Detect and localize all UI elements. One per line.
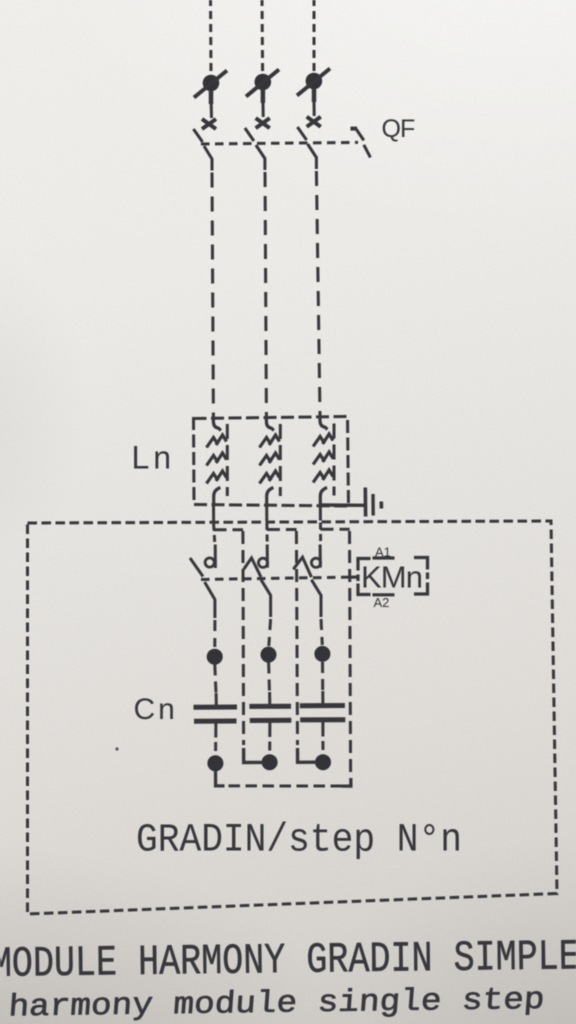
title line 2 harmony module single step (7, 983, 546, 1024)
junction dot 1 top (207, 649, 223, 665)
earth symbol (365, 488, 381, 517)
capacitor C3 bottom lead (321, 722, 324, 750)
label A1 (375, 545, 391, 560)
ink speck (115, 747, 118, 750)
inductor L2 core (279, 424, 282, 496)
inductor L1 coil (207, 416, 227, 505)
label QF (382, 115, 415, 143)
branch tap 1 (214, 530, 244, 745)
wire pole2 to junction (269, 619, 271, 646)
terminal X pole 2 (256, 118, 270, 128)
title line 1 MODULE HARMONY GRADIN SIMPLE (0, 932, 576, 989)
contactor KMn linkage (201, 577, 357, 580)
label Ln (132, 440, 176, 476)
junction dot 2 bottom (262, 754, 278, 770)
capacitor C1 bottom lead (214, 723, 217, 751)
contactor KMn pole 1 contact (190, 545, 215, 619)
junction dot 3 bottom (315, 754, 331, 770)
wire L1 into module (214, 505, 215, 544)
breaker QF pole 2 blade (245, 128, 265, 170)
junction dot 1 bottom (207, 755, 223, 771)
bottom bus right corner (342, 778, 351, 786)
breaker QF pole 1 blade (193, 129, 212, 171)
bottom bus left corner (216, 770, 225, 786)
module enclosure box GRADIN (28, 521, 558, 914)
terminal X pole 3 (307, 117, 321, 127)
reactor assembly box Ln (194, 417, 349, 507)
wire phase L2 top (261, 0, 265, 73)
branch tap 2 (267, 530, 298, 746)
earth connection stem (320, 503, 364, 507)
wire dot1 to capacitor C1 (215, 665, 217, 708)
breaker QF pole 3 blade (297, 127, 316, 169)
label GRADIN/step N°n (136, 819, 462, 864)
wire L3 into module (319, 505, 322, 544)
breaker QF handle (351, 129, 371, 158)
breaker QF linkage (201, 142, 358, 144)
delta link branch1 to C2 (244, 748, 263, 763)
wire phase L3 top (313, 0, 316, 72)
wire dot2 to capacitor C2 (269, 663, 270, 707)
label A2 (374, 595, 390, 610)
label Cn (134, 693, 178, 726)
wire L2 into module (265, 505, 269, 544)
wire phase L1 top (209, 0, 213, 74)
wire pole1 to junction (213, 620, 216, 647)
capacitor C3 (300, 706, 346, 720)
wire dot3 to capacitor C3 (321, 662, 324, 706)
junction dot 2 top (261, 647, 277, 663)
branch tap 3 (321, 529, 351, 776)
junction dot 3 top (314, 646, 330, 662)
capacitor C1 (194, 707, 238, 721)
inductor L3 coil (313, 415, 333, 505)
contactor KMn pole 3 contact (293, 545, 321, 618)
capacitor C2 (249, 706, 291, 720)
plug-in connector pole 1 (194, 71, 227, 119)
capacitor C2 bottom lead (268, 722, 271, 750)
contactor coil box KMn (351, 558, 428, 595)
label KMn (361, 560, 423, 595)
plug-in connector pole 2 (246, 70, 279, 118)
inductor L2 coil (260, 416, 280, 505)
bottom bus (229, 784, 343, 787)
wire phase L3 middle (316, 171, 320, 415)
wire phase L2 middle (265, 172, 266, 416)
delta link branch2 to C3 (298, 748, 317, 762)
wire pole3 to junction (321, 619, 322, 645)
plug-in connector pole 3 (297, 69, 330, 117)
terminal X pole 1 (202, 119, 216, 129)
inductor L3 core (333, 424, 336, 496)
inductor L1 core (226, 424, 229, 496)
contactor KMn pole 2 contact (244, 545, 271, 618)
wire phase L1 middle (212, 173, 213, 417)
